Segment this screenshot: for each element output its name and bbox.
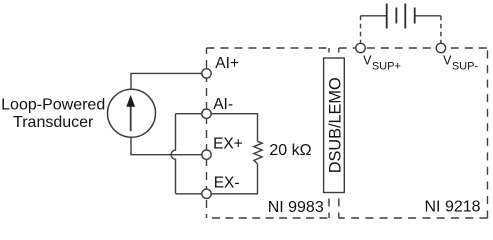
- terminal EX+: [202, 150, 211, 159]
- current source U1 (loop-powered transducer): [108, 89, 156, 137]
- connector DSUB/LEMO box: [324, 58, 345, 193]
- battery B1 plates: [387, 4, 415, 29]
- resistor 20 kOhm: [254, 141, 262, 163]
- dashed box NI 9983: [207, 48, 330, 218]
- wire vertical bus AI- to EX- with hop over EX+ wire: [171, 114, 176, 194]
- wire transducer top to AI+: [131, 73, 202, 89]
- wire resistor bottom to EX-: [211, 164, 257, 194]
- wire AI- to resistor top: [211, 114, 257, 142]
- svg-text:NI 9983: NI 9983: [268, 199, 324, 216]
- svg-text:AI+: AI+: [215, 55, 239, 72]
- dashed wire battery+ to VSUP+: [360, 16, 362, 44]
- terminal EX-: [202, 189, 211, 198]
- svg-text:NI 9218: NI 9218: [425, 199, 481, 216]
- svg-text:AI-: AI-: [213, 96, 233, 113]
- terminal VSUP+: [356, 43, 365, 52]
- wire EX- to vertical bus: [176, 193, 202, 195]
- dashed wire battery- to VSUP-: [440, 16, 442, 44]
- svg-text:DSUB/LEMO: DSUB/LEMO: [326, 77, 344, 173]
- svg-text:Transducer: Transducer: [13, 114, 94, 131]
- dashed box NI 9218: [339, 48, 488, 218]
- wire transducer bottom to EX+: [131, 137, 202, 155]
- svg-text:20 kΩ: 20 kΩ: [269, 142, 311, 159]
- terminal VSUP-: [436, 43, 445, 52]
- svg-text:Loop-Powered: Loop-Powered: [1, 97, 105, 114]
- label Loop-Powered Transducer: [1, 97, 105, 132]
- svg-text:EX+: EX+: [213, 135, 243, 152]
- wire AI- to vertical bus: [176, 113, 202, 115]
- battery B1 wires: [361, 15, 441, 17]
- terminal AI+: [202, 69, 211, 78]
- svg-text:EX-: EX-: [214, 175, 240, 192]
- current source arrow: [126, 95, 135, 131]
- terminal AI-: [202, 109, 211, 118]
